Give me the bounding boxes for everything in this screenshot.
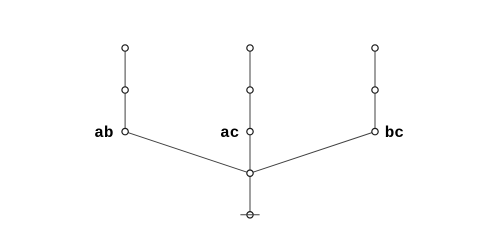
node: ac chain middle <box>247 87 253 93</box>
wire: diagonal ab to junction <box>125 132 250 174</box>
wire: diagonal bc to junction <box>250 132 375 174</box>
node: root <box>247 212 253 218</box>
node: bc chain top <box>372 45 378 51</box>
wire: right chain vertical <box>374 48 376 132</box>
node ab <box>122 128 128 134</box>
node bc <box>372 128 378 134</box>
svg-text:bc: bc <box>385 124 404 142</box>
node ac <box>247 128 253 134</box>
wire: junction to root <box>249 173 251 215</box>
node: ab chain middle <box>122 87 128 93</box>
node: junction <box>247 170 253 176</box>
node: ac chain top <box>247 45 253 51</box>
wire: root horizontal bar <box>240 214 259 216</box>
svg-text:ac: ac <box>220 124 239 142</box>
node: bc chain middle <box>372 87 378 93</box>
wire: middle chain vertical down to junction <box>249 48 251 173</box>
node: ab chain top <box>122 45 128 51</box>
svg-text:ab: ab <box>94 124 113 142</box>
wire: left chain vertical <box>124 48 126 132</box>
